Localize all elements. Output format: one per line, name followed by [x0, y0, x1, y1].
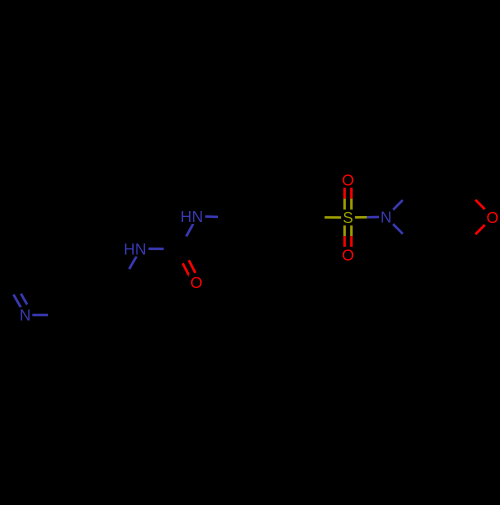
bond N12-AT azetidine	[393, 200, 403, 210]
atom label N1 pyridine nitrogen	[18, 307, 32, 322]
bond B4-S (benzene to sulfonyl)	[308, 216, 325, 219]
atom label O13 oxetane oxygen	[485, 209, 500, 225]
bond OB2-SP oxetane	[453, 230, 466, 244]
atom label O11 carbonyl oxygen	[189, 275, 204, 291]
svg-text:HN: HN	[180, 209, 203, 226]
atom label N10 urea HN (top)	[178, 209, 205, 224]
bond B5-B6 benzene	[270, 249, 289, 252]
bond AT-SP azetidine	[413, 190, 426, 203]
bond O13-OB2 oxetane	[475, 225, 484, 235]
bond S-N12 (sulfonamide)	[355, 216, 367, 219]
svg-text:HN: HN	[124, 242, 147, 259]
bond C9-N10 (carbonyl C to NH)	[179, 236, 186, 249]
atom label N12 azetidine nitrogen	[379, 209, 393, 224]
bond C9=O11 carbonyl (double)	[176, 251, 183, 264]
bond SP-AB azetidine	[426, 217, 439, 230]
svg-text:O: O	[190, 275, 202, 292]
bond S=O bottom (double)	[343, 225, 346, 236]
bond N1=C2 pyridine (double)	[13, 294, 20, 307]
bond B6=B1 benzene (double)	[241, 234, 251, 251]
bond SP-OT2 oxetane	[439, 204, 452, 217]
bond B4=B5 benzene (double)	[299, 217, 309, 234]
bond AB-N12 azetidine	[403, 234, 413, 244]
bond B3-B4 benzene	[289, 184, 299, 201]
svg-text:O: O	[486, 210, 498, 227]
svg-text:N: N	[20, 308, 31, 325]
bond C6-N1 pyridine	[48, 314, 64, 317]
svg-text:O: O	[342, 172, 354, 189]
bond C2-C3 pyridine	[6, 265, 16, 282]
atom label O bottom sulfonyl oxygen	[340, 247, 355, 263]
bond B2=B3 benzene (double)	[250, 183, 269, 186]
svg-text:O: O	[342, 248, 354, 265]
bond C4-C5 pyridine	[64, 248, 74, 265]
bond C3=C4 pyridine (double)	[25, 247, 44, 250]
bond N10-B1 (NH to benzene)	[205, 215, 218, 218]
bond B1-B2 benzene	[231, 201, 241, 218]
bond C7-N8 (CH2 to NH)	[122, 269, 129, 282]
bond S=O top (double)	[350, 199, 353, 210]
bond OT2-O13 oxetane	[466, 190, 476, 200]
atom label N8 urea HN (left)	[122, 241, 149, 256]
atom label S sulfonyl sulfur	[341, 210, 355, 226]
bond C5=C6 pyridine (double)	[73, 282, 83, 299]
bond C5-C7 (ring to CH2)	[83, 280, 102, 283]
svg-text:N: N	[380, 210, 391, 227]
svg-text:S: S	[343, 210, 353, 227]
bond N8-C9 (NH to carbonyl C)	[148, 248, 163, 251]
atom label O top sulfonyl oxygen	[340, 172, 355, 188]
